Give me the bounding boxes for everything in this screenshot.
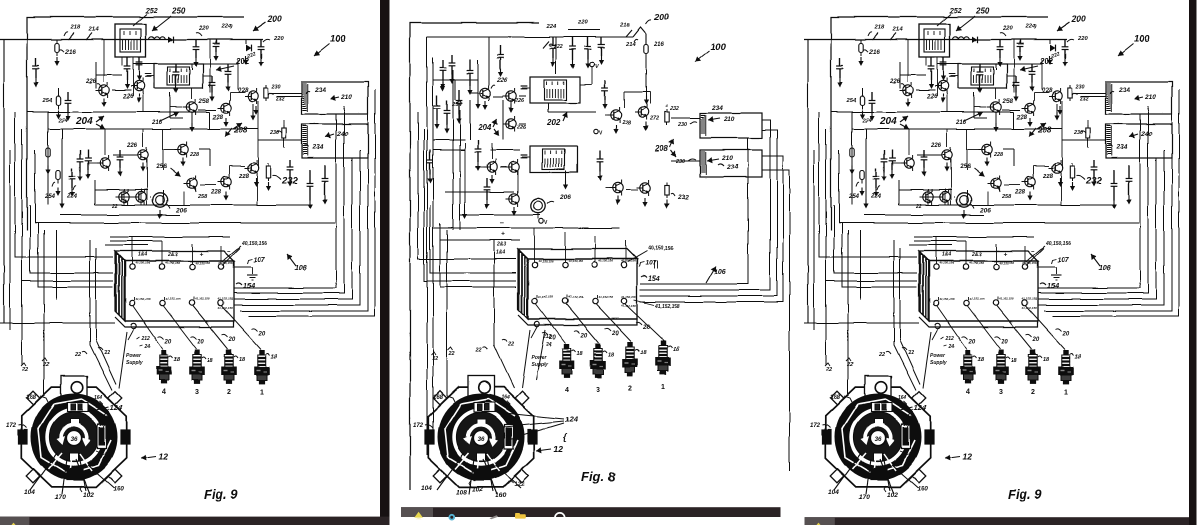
transistor Q8 [221, 103, 231, 113]
svg-text:232: 232 [669, 106, 679, 112]
fig8 resistor RB [666, 182, 668, 185]
ground drop a [35, 58, 37, 66]
middle taskbar back section gray [401, 507, 433, 517]
svg-text:228: 228 [238, 174, 250, 180]
fig8 resistor RA [666, 109, 668, 112]
svg-text:226: 226 [496, 78, 508, 84]
fig8 feed wire 4 [440, 223, 516, 287]
svg-text:164: 164 [501, 395, 510, 401]
transistor Q1 [99, 85, 109, 95]
svg-text:−: − [500, 220, 504, 227]
middle taskbar folder icon [515, 514, 526, 518]
transistor Q13 [248, 163, 258, 173]
bus wires above connector [110, 236, 230, 238]
right taskbar back section gray [805, 517, 835, 525]
Q7-Q9 wiring [170, 106, 183, 108]
feed wire 3 [30, 205, 113, 273]
fig8 extra cap c7 [486, 178, 488, 187]
fig8 motor 206 [531, 199, 545, 213]
transistor Q6 [136, 192, 146, 202]
right panel taskbar [805, 517, 1189, 525]
fig8 wire top corner [633, 27, 646, 44]
spark plug P3 [190, 350, 205, 383]
transistor Q12 [221, 177, 231, 187]
resistor R232 [267, 163, 269, 166]
svg-text:22: 22 [103, 350, 110, 356]
svg-text:230: 230 [677, 122, 687, 128]
fig8 cap group 220 [572, 37, 574, 47]
cap 224 top [215, 40, 217, 44]
transistor Q3 [138, 150, 148, 160]
extra stub s2 [252, 104, 254, 112]
IC box 202 [154, 64, 203, 88]
svg-text:20: 20 [258, 331, 266, 337]
fig8 cap group 224 [552, 37, 554, 46]
fig8 transistor QA [480, 88, 490, 98]
fig8 main wire [427, 36, 633, 38]
svg-text:22: 22 [448, 351, 455, 357]
fig8 feed wire 3 [430, 205, 516, 273]
fig8 nested right wire 2 [640, 130, 777, 296]
svg-text:164: 164 [94, 395, 103, 401]
svg-text:106: 106 [295, 265, 307, 272]
right separator black bar [1189, 0, 1197, 525]
fig8 transistor QD [487, 162, 497, 172]
svg-text:2: 2 [227, 389, 231, 396]
plug wire 2 [193, 306, 228, 349]
svg-text:216: 216 [64, 49, 76, 56]
cap 224b [67, 92, 69, 100]
svg-text:20: 20 [642, 325, 650, 331]
svg-text:210: 210 [340, 94, 352, 101]
svg-text:168: 168 [433, 395, 444, 401]
diode 222 [245, 40, 247, 45]
fig8 extra caps left [469, 60, 471, 71]
svg-text:1&4: 1&4 [496, 250, 505, 256]
fig8 extra bus b [433, 139, 465, 141]
fig8 wires below connector [522, 330, 530, 388]
svg-text:22: 22 [42, 362, 49, 368]
svg-text:234: 234 [312, 144, 324, 151]
svg-text:208: 208 [654, 144, 669, 153]
right coil wiring [271, 92, 302, 94]
svg-text:124: 124 [565, 415, 578, 424]
svg-text:202: 202 [546, 118, 561, 127]
fig8 extra topleft caps [442, 60, 444, 68]
extra bus wire y75 [96, 74, 122, 76]
svg-text:102: 102 [472, 486, 483, 493]
svg-text:204: 204 [75, 116, 93, 127]
middle taskbar yellow nav icon [414, 512, 423, 518]
extra bus y215 [60, 214, 180, 216]
diode D1 [168, 36, 174, 43]
resistor R230a [265, 85, 267, 88]
svg-text:18: 18 [207, 358, 214, 364]
pin feed drops [131, 237, 133, 264]
feed wire pair to distributor tab [90, 240, 112, 390]
fig8 distributor assembly [425, 376, 537, 494]
long bottom wire to connector [0, 322, 115, 324]
svg-text:4: 4 [565, 387, 569, 394]
svg-text:154: 154 [243, 283, 255, 290]
svg-text:220: 220 [198, 26, 209, 32]
gnd row lower [267, 182, 269, 187]
resistor R230b [283, 125, 285, 128]
svg-text:228: 228 [212, 115, 224, 121]
svg-text:122: 122 [514, 481, 525, 488]
svg-text:24: 24 [144, 344, 151, 350]
nested wires right side v352 [234, 158, 352, 299]
fig8 extra topleft verticals [469, 100, 471, 140]
svg-text:20: 20 [164, 339, 172, 345]
circuit enclosure 200 outline [27, 17, 244, 230]
plug wire 3 [163, 306, 196, 349]
fig8 V terminal 1 [590, 63, 594, 67]
svg-text:22: 22 [21, 367, 28, 373]
fig8 enclosure left border [410, 23, 539, 490]
middle taskbar circle icon [555, 513, 565, 523]
fig8 extra bus c [445, 191, 514, 193]
wire bus y129 [48, 128, 258, 130]
wire corner at left edge [3, 40, 5, 324]
svg-text:202: 202 [235, 57, 250, 66]
svg-text:146: 146 [102, 451, 110, 456]
diagonal to pin row1 [222, 248, 240, 266]
svg-text:226: 226 [516, 125, 527, 131]
fig8 IC B caps [522, 156, 530, 158]
fig8 junction connector box [518, 249, 637, 327]
svg-text:18: 18 [608, 352, 615, 358]
extra cap drop c5 [309, 170, 311, 183]
feed wire 2 [22, 129, 113, 281]
svg-text:20: 20 [228, 337, 236, 343]
cap 220b [260, 40, 262, 47]
svg-text:Supply: Supply [126, 360, 143, 366]
middle taskbar blue browser icon [449, 514, 456, 521]
svg-text:160: 160 [495, 492, 506, 499]
fig8 nested right wire 4 [762, 170, 790, 471]
feed wire x56 to octagon [55, 230, 57, 300]
svg-text:107: 107 [645, 260, 656, 267]
nested wires right side v336 [234, 114, 336, 288]
svg-text:232: 232 [677, 194, 689, 201]
svg-text:104: 104 [421, 485, 432, 492]
svg-text:18: 18 [271, 354, 278, 360]
fig8 bus wires [433, 227, 620, 229]
wire bus y205 [95, 204, 310, 206]
svg-text:272: 272 [649, 116, 659, 122]
svg-text:Fig. 9: Fig. 9 [204, 487, 239, 502]
fig8 IC box A [530, 77, 580, 103]
svg-text:212: 212 [141, 336, 151, 342]
fig8 nested right wire 3 [640, 156, 783, 302]
svg-text:206: 206 [175, 207, 187, 214]
feed wire 4 [38, 223, 113, 287]
fig8 cap 254 [458, 90, 460, 101]
svg-text:258: 258 [197, 194, 208, 200]
box 252 bottom leads [121, 57, 123, 66]
fig8 transformer box B [700, 150, 762, 177]
transistor Q10 [178, 144, 188, 154]
svg-text:230: 230 [675, 159, 685, 165]
svg-text:230: 230 [271, 84, 281, 90]
svg-text:40,150,156: 40,150,156 [647, 246, 673, 252]
junction connector box 107 [115, 251, 234, 329]
svg-text:22: 22 [111, 204, 118, 210]
extra left cap c6 [79, 150, 81, 159]
svg-text:20: 20 [580, 333, 588, 339]
lower right wiring [200, 184, 216, 186]
svg-text:22: 22 [431, 356, 438, 362]
fig8 V terminal 2 [594, 129, 598, 133]
svg-text:Power: Power [531, 355, 547, 361]
nested wires right side v375 [248, 90, 375, 316]
svg-text:230: 230 [269, 130, 279, 136]
transistor Q11 [187, 178, 197, 188]
fig8 plug wires [536, 304, 566, 343]
wire v35 [34, 150, 36, 223]
svg-text:220: 220 [577, 20, 588, 26]
extra wire w1 [162, 190, 164, 205]
wire bus y223 [35, 222, 335, 224]
svg-text:218: 218 [619, 23, 630, 29]
svg-text:228: 228 [189, 152, 199, 158]
svg-text:1&4: 1&4 [138, 252, 147, 258]
right taskbar yellow icon tip [817, 523, 821, 525]
svg-text:254: 254 [41, 98, 52, 104]
extra stub s1 [191, 112, 193, 123]
fig8 feed wires to connector [418, 112, 516, 259]
fig8 IC box B [530, 146, 577, 172]
extra bus y190 [95, 189, 148, 191]
spark plug P1 [255, 350, 270, 383]
middle panel taskbar [401, 507, 781, 517]
fig8 transistor QI [613, 183, 623, 193]
fig8 right wiring [623, 92, 625, 108]
middle taskbar pen icon [490, 515, 499, 519]
svg-text:18: 18 [577, 351, 584, 357]
fig8 spark plug P1 [656, 341, 671, 374]
cap 220a [195, 40, 197, 47]
plug wire 4 [133, 306, 163, 349]
svg-text:18: 18 [673, 347, 680, 353]
fig8 extra gnd row [484, 101, 486, 106]
svg-text:2&3: 2&3 [167, 252, 177, 258]
svg-text:224): 224) [220, 24, 233, 30]
extra cap drop c2 [227, 64, 229, 71]
svg-text:100: 100 [330, 34, 347, 45]
switch 214 [86, 33, 92, 40]
nested wire left v48 [47, 112, 49, 205]
svg-text:206: 206 [559, 194, 571, 201]
fig8 IC A caps [522, 87, 530, 89]
svg-text:228: 228 [210, 190, 222, 196]
svg-text:234: 234 [314, 87, 326, 94]
fig8 extra gnd g9 [477, 100, 479, 105]
svg-text:234: 234 [711, 105, 723, 112]
ground at connector [234, 266, 252, 268]
fuse 254b [56, 170, 60, 179]
plug wire 1 [222, 306, 261, 349]
wire bus y112 [27, 111, 210, 113]
svg-text:1: 1 [260, 389, 264, 396]
fig8 extra wire QA [470, 92, 477, 94]
ground drop b [57, 88, 59, 96]
svg-text:214: 214 [88, 27, 99, 33]
main supply wire [0, 39, 263, 41]
extra left fuse f2 [47, 140, 49, 148]
fig8 switch 218 [626, 30, 632, 37]
svg-text:18: 18 [239, 357, 246, 363]
fig8 spark plug P4 [560, 344, 575, 377]
svg-text:148: 148 [100, 416, 108, 421]
Q1 Q2 wiring [103, 40, 105, 83]
left panel taskbar [0, 517, 390, 525]
svg-text:224: 224 [57, 118, 68, 124]
extra cap drop c4 [119, 150, 121, 157]
fig8 extra bus y215 [460, 214, 540, 216]
svg-text:4: 4 [162, 389, 166, 396]
fig8 extra cap mid [477, 140, 479, 149]
feed wire x10 [9, 150, 11, 330]
svg-text:3: 3 [195, 389, 199, 396]
svg-text:1: 1 [661, 384, 665, 391]
feed wire extended 22 [21, 281, 23, 365]
svg-text:Power: Power [126, 353, 142, 359]
feed wire to distributor [43, 230, 45, 396]
IC 202 side caps [146, 75, 154, 77]
fig8 nested border v433 [432, 58, 434, 430]
svg-text:2&3: 2&3 [496, 242, 506, 248]
svg-text:22: 22 [507, 342, 514, 348]
svg-text:250: 250 [171, 7, 186, 16]
fig8 extra left verticals [452, 70, 454, 230]
cap 224c [71, 168, 73, 176]
extra ground g1 [191, 64, 193, 70]
wires below connector to distributor [119, 332, 127, 388]
spark plug P4 [157, 350, 172, 383]
distributor assembly 12 [18, 376, 130, 494]
fig8 spark plug P2 [623, 342, 638, 375]
transformer box 210a [302, 82, 368, 114]
svg-text:160: 160 [113, 486, 124, 493]
fig8 V terminal 3 [539, 219, 543, 223]
fig8 left caps [436, 95, 438, 106]
fig8 transistor QF [509, 194, 519, 204]
extra bus wire y64 [133, 63, 238, 65]
fig8 transistor QE [509, 162, 519, 172]
svg-text:100: 100 [710, 42, 727, 53]
svg-text:200: 200 [267, 14, 282, 24]
svg-text:170: 170 [100, 422, 108, 427]
svg-text:228: 228 [237, 88, 249, 94]
transistor Q2 [134, 81, 144, 91]
svg-text:224: 224 [545, 24, 556, 30]
svg-text:18: 18 [640, 350, 647, 356]
transistor Q5 [119, 192, 129, 202]
fig8 transistor QB [506, 91, 516, 101]
svg-text:226: 226 [126, 143, 138, 149]
svg-text:204: 204 [477, 123, 492, 132]
nested wires right side v344 [234, 106, 344, 293]
fuse 216 [56, 40, 58, 44]
svg-text:240: 240 [336, 131, 348, 138]
svg-text:102: 102 [83, 492, 94, 499]
svg-text:226: 226 [85, 79, 97, 85]
svg-text:20: 20 [611, 331, 619, 337]
extra wire w3 [94, 180, 96, 205]
svg-text:12: 12 [553, 444, 563, 454]
left taskbar yellow icon tip [12, 523, 16, 525]
svg-text:22: 22 [475, 347, 482, 353]
svg-text:20: 20 [196, 339, 204, 345]
svg-text:220: 220 [273, 36, 284, 42]
svg-text:226: 226 [514, 98, 525, 104]
fig8 extra bus y150 [433, 149, 465, 151]
svg-text:254: 254 [44, 194, 56, 200]
svg-text:104: 104 [24, 489, 35, 496]
svg-text:22: 22 [74, 352, 81, 358]
svg-text:40,150,156: 40,150,156 [241, 241, 267, 247]
mid wiring row [113, 154, 135, 156]
left separator black bar [380, 0, 390, 517]
svg-text:172: 172 [413, 423, 424, 429]
svg-text:214: 214 [625, 42, 636, 48]
svg-text:234: 234 [726, 164, 738, 171]
svg-text:154: 154 [648, 276, 660, 283]
fig8 fuse 216 [644, 44, 648, 53]
svg-text:224: 224 [66, 194, 78, 200]
spark plug P2 [222, 350, 237, 383]
nested wires right side v368 [240, 98, 368, 311]
svg-text:107: 107 [253, 257, 266, 264]
fig8 feed to distributor [446, 230, 448, 396]
svg-text:24: 24 [545, 342, 552, 348]
svg-text:2: 2 [628, 385, 632, 392]
svg-text:226: 226 [122, 94, 134, 100]
svg-text:228: 228 [621, 120, 631, 126]
svg-text:218: 218 [70, 25, 81, 31]
fig8 transformer box A [700, 113, 762, 138]
svg-text:210: 210 [721, 155, 733, 162]
svg-text:108: 108 [456, 489, 467, 496]
fig8 transistor QC [506, 119, 516, 129]
fig8 transistor QH [638, 107, 648, 117]
svg-text:+: + [199, 251, 203, 258]
switch 218 [68, 33, 74, 40]
extra cap drop c3 [87, 150, 89, 158]
extra left vertical v62 [61, 129, 63, 200]
transistor Q4 [100, 158, 110, 168]
extra vertical v170 [169, 92, 171, 118]
fig8 nested border v427 [426, 37, 428, 455]
svg-text:232: 232 [275, 96, 285, 102]
svg-text:170: 170 [55, 494, 66, 501]
nested wires right side v360 [234, 150, 360, 305]
motor symbol 206 [153, 193, 167, 207]
transistor Q7 258 [187, 102, 197, 112]
transistor Q9 [248, 91, 258, 101]
svg-text:12: 12 [158, 451, 168, 461]
coil L1 [149, 37, 165, 40]
fig8 transistor QG [611, 110, 621, 120]
svg-text:256: 256 [155, 163, 167, 170]
svg-text:216: 216 [653, 41, 665, 48]
fig8 nested right wire 5 [640, 138, 748, 284]
fig8 spark plug P3 [591, 344, 606, 377]
fig8 extra wire IC [547, 103, 549, 112]
fig8 extra bus a [433, 79, 478, 81]
